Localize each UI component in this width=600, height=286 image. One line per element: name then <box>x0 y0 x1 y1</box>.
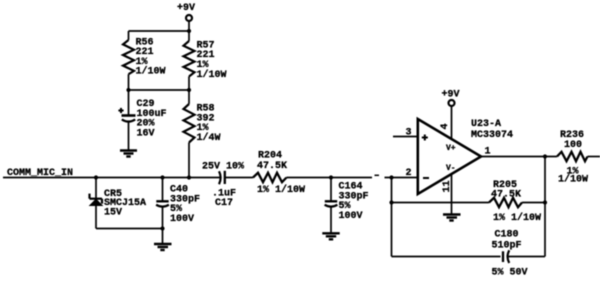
label R205 value <box>491 180 541 224</box>
node junction top rail at R57 <box>187 29 191 33</box>
wire C180 row right <box>509 256 546 258</box>
svg-text:5% 50V: 5% 50V <box>492 268 528 279</box>
wire output right edge <box>588 156 600 158</box>
svg-text:2: 2 <box>406 168 412 179</box>
label C164 value <box>339 182 369 222</box>
capacitor C40 <box>156 178 169 244</box>
ground below C40 <box>154 244 172 250</box>
ground below C164 <box>322 233 339 239</box>
node junction feedback left at R205 <box>389 200 393 204</box>
node junction feedback right at R205 <box>543 200 547 204</box>
wire tick artifact on main net <box>375 174 380 176</box>
wire op-amp pin 11 to ground <box>451 174 453 214</box>
resistor R58 <box>184 90 195 178</box>
wire feedback left vertical <box>391 178 393 257</box>
svg-text:1/4W: 1/4W <box>197 132 221 144</box>
resistor R57 <box>184 31 195 90</box>
wire top rail <box>129 30 190 32</box>
wire main input net left of C17 <box>3 177 220 179</box>
node junction at C40 <box>160 175 164 179</box>
wire main input net R204 to break <box>287 177 373 179</box>
wire feedback right vertical <box>544 157 546 257</box>
ground op-amp pin 11 <box>443 215 461 221</box>
svg-text:V+: V+ <box>446 144 456 153</box>
diode CR5 zener <box>90 178 103 229</box>
svg-text:1% 1/10W: 1% 1/10W <box>257 184 305 196</box>
svg-text:15V: 15V <box>104 208 122 219</box>
label R58 value <box>197 104 221 144</box>
svg-text:25V 10%: 25V 10% <box>202 162 244 173</box>
wire C180 row left <box>392 256 501 258</box>
label U23-A designator <box>471 119 513 141</box>
power +9V terminal left circle <box>186 15 192 21</box>
svg-text:+9V: +9V <box>442 90 460 101</box>
svg-text:1/10W: 1/10W <box>558 174 588 186</box>
wire +9V stub to top rail <box>188 21 190 31</box>
svg-text:U23-A: U23-A <box>471 119 501 130</box>
svg-text:+9V: +9V <box>177 3 195 14</box>
svg-text:1% 1/10W: 1% 1/10W <box>493 212 541 224</box>
svg-text:R204: R204 <box>258 150 282 161</box>
label R204 value <box>257 150 305 196</box>
label C29 plus polarity mark <box>118 108 123 113</box>
node junction at C164 <box>329 175 333 179</box>
wire op-amp pin 3 stub <box>393 136 418 138</box>
label R57 value <box>197 40 227 80</box>
svg-text:47.5K: 47.5K <box>491 190 521 201</box>
svg-text:100: 100 <box>564 140 582 151</box>
svg-text:510pF: 510pF <box>492 240 522 251</box>
node junction at R58 <box>187 175 191 179</box>
capacitor C180 <box>503 250 509 263</box>
label C17 value <box>212 188 236 209</box>
svg-text:4: 4 <box>440 123 451 129</box>
label op-amp plus input mark <box>422 135 428 141</box>
op-amp U23-A triangle <box>418 119 481 194</box>
wire main net to pin2 <box>385 177 418 179</box>
svg-text:C17: C17 <box>215 198 233 209</box>
capacitor C17 <box>219 171 225 184</box>
node junction rail2 left <box>126 88 130 92</box>
wire op-amp pin 4 to +9V <box>451 106 453 139</box>
resistor R205 <box>489 198 522 207</box>
resistor R204 <box>253 173 287 182</box>
resistor R56 <box>123 31 134 90</box>
capacitor C29 polarized <box>122 90 136 150</box>
label C40 value <box>170 185 200 225</box>
wire main input net C17 to R204 <box>226 177 254 179</box>
label C29 value <box>137 99 167 139</box>
label R56 value <box>136 37 166 77</box>
svg-text:C180: C180 <box>495 230 519 241</box>
svg-text:V-: V- <box>446 164 456 173</box>
wire op-amp output <box>481 156 557 158</box>
wire second rail <box>129 89 190 91</box>
ground below C29 <box>120 151 137 157</box>
svg-text:16V: 16V <box>137 128 155 139</box>
capacitor C164 <box>325 178 338 234</box>
svg-text:3: 3 <box>406 128 412 139</box>
node junction rail2 right <box>187 88 191 92</box>
svg-text:100V: 100V <box>339 211 363 222</box>
power +9V terminal op-amp circle <box>449 100 455 106</box>
label CR5 value <box>104 189 146 219</box>
wire CR5 bottom to C40 bottom <box>96 228 163 230</box>
svg-text:100V: 100V <box>170 214 194 225</box>
node junction output feedback <box>543 154 547 158</box>
svg-text:47.5K: 47.5K <box>257 161 287 172</box>
node junction C40 bottom <box>160 226 164 230</box>
label R236 value <box>558 130 588 186</box>
node junction at feedback tap <box>389 175 393 179</box>
label C180 value <box>492 230 528 279</box>
label op-amp minus input mark <box>423 177 429 179</box>
wire R205 row right <box>522 202 545 204</box>
resistor R236 <box>557 152 588 161</box>
svg-text:MC33074: MC33074 <box>471 130 513 141</box>
node junction at CR5 <box>94 175 98 179</box>
wire R205 row left <box>392 202 490 204</box>
svg-text:1/10W: 1/10W <box>136 66 166 78</box>
svg-text:1/10W: 1/10W <box>197 69 227 81</box>
